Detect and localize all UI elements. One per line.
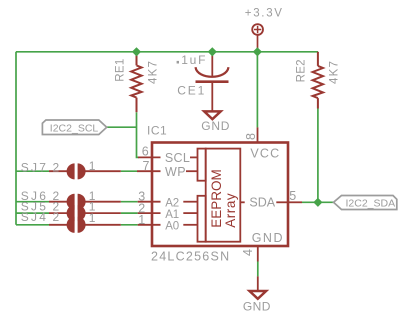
wire top horizontal net +3.3V	[16, 52, 334, 277]
wire SJ6 left	[16, 201, 49, 203]
wire SJ5 left	[16, 212, 49, 214]
pin 4 GND	[257, 246, 259, 262]
wire left vertical bus	[15, 52, 17, 225]
svg-text:7: 7	[143, 159, 150, 173]
svg-text:4K7: 4K7	[329, 60, 341, 84]
svg-text:2: 2	[53, 161, 60, 175]
pin 1 A0	[138, 224, 198, 226]
net flag I2C2_SDA	[334, 196, 397, 210]
capacitor CE1	[196, 52, 229, 112]
wire SJ7 left	[16, 170, 49, 172]
junction at SDA/RE2	[313, 198, 322, 207]
svg-text:2: 2	[53, 210, 60, 224]
wire SJ7 to WP pin	[121, 170, 137, 172]
resistor RE1	[131, 52, 141, 112]
svg-text:WP: WP	[165, 165, 186, 179]
svg-text:EEPROM: EEPROM	[209, 169, 224, 228]
jumper SJ4	[67, 217, 86, 233]
svg-text:RE1: RE1	[114, 58, 126, 81]
svg-text:Array: Array	[223, 193, 238, 228]
svg-text:1uF: 1uF	[181, 53, 207, 67]
label .1uF	[177, 61, 179, 64]
svg-text:6: 6	[142, 144, 149, 158]
wire SJ6 pin stubs	[49, 201, 121, 203]
jumper SJ6	[67, 194, 86, 210]
svg-text:CE1: CE1	[177, 84, 206, 98]
svg-text:A1: A1	[165, 209, 179, 221]
wire SJ4 pin stubs	[49, 224, 121, 226]
pin 8 VCC	[257, 127, 259, 142]
wire SJ6 to A2 pin	[121, 201, 138, 203]
svg-text:SJ7: SJ7	[21, 161, 48, 175]
EEPROM array inner block	[198, 149, 241, 242]
svg-text:SDA: SDA	[249, 196, 275, 210]
svg-text:4K7: 4K7	[148, 60, 160, 84]
svg-text:GND: GND	[201, 119, 230, 133]
wire SCL net from flag to RE1 and pin 6	[107, 112, 139, 157]
supply +3.3V symbol	[252, 24, 263, 52]
wire SJ5 pin stubs	[49, 212, 121, 214]
svg-text:I2C2_SDA: I2C2_SDA	[346, 198, 396, 210]
wire SJ4 to A0 pin	[121, 224, 138, 226]
svg-text:I2C2_SCL: I2C2_SCL	[50, 122, 99, 134]
junction at CE1 top	[208, 47, 217, 56]
svg-text:GND: GND	[243, 299, 271, 313]
svg-text:+3.3V: +3.3V	[245, 8, 284, 20]
junction at RE1 top	[132, 47, 141, 56]
wire SJ7 pin stubs	[49, 170, 121, 172]
svg-text:A2: A2	[165, 197, 179, 209]
svg-text:8: 8	[244, 133, 258, 140]
ground GND (bottom)	[250, 291, 267, 299]
pin 3 A2	[138, 201, 198, 203]
pin 7 WP	[137, 170, 198, 172]
svg-text:VCC: VCC	[250, 146, 280, 160]
wire pin4 to GND	[257, 262, 259, 277]
resistor RE2	[313, 52, 323, 109]
net flag I2C2_SCL	[42, 120, 106, 135]
svg-text:A0: A0	[165, 221, 179, 233]
svg-text:24LC256SN: 24LC256SN	[151, 250, 230, 264]
IC1 box 24LC256SN	[152, 143, 288, 247]
wire VCC pin 8 vertical	[256, 52, 258, 128]
svg-text:5: 5	[289, 189, 296, 203]
wire SDA net RE2 vertical	[317, 109, 319, 203]
pin 5 SDA	[240, 201, 302, 203]
svg-text:4: 4	[241, 249, 255, 256]
jumper SJ5	[67, 205, 86, 221]
jumper SJ7	[67, 163, 86, 179]
svg-text:RE2: RE2	[296, 59, 308, 82]
svg-text:1: 1	[89, 211, 96, 225]
svg-text:SCL: SCL	[165, 151, 190, 165]
svg-text:SJ4: SJ4	[21, 210, 48, 224]
wire SDA horizontal	[302, 201, 334, 203]
pin 6 SCL	[138, 156, 198, 158]
ground GND (under CE1)	[204, 111, 221, 119]
svg-text:1: 1	[138, 213, 145, 227]
svg-text:GND: GND	[252, 231, 284, 245]
svg-text:IC1: IC1	[147, 124, 167, 138]
wire SJ4 left	[16, 224, 49, 226]
wire SJ5 to A1 pin	[121, 212, 138, 214]
wire pin4 lower red	[257, 276, 259, 291]
pin 2 A1	[138, 212, 198, 214]
svg-text:1: 1	[89, 159, 96, 173]
junction at +3.3V	[253, 47, 262, 56]
